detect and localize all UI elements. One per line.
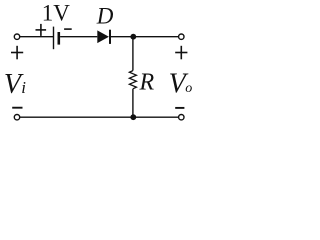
terminal: Vi- (open circle) (14, 115, 19, 120)
junction: bottom node (dot) (130, 114, 136, 120)
port Vo minus mark (175, 107, 184, 109)
port Vi minus mark (12, 107, 22, 109)
svg-text:R: R (139, 69, 155, 95)
wire: battery to diode anode (60, 36, 97, 38)
svg-text:1: 1 (42, 1, 54, 26)
port Vo plus mark (175, 46, 187, 60)
svg-text:i: i (21, 78, 26, 97)
diode D: cathode bar (109, 30, 111, 44)
battery 1 V (offset source) long positive plate (53, 27, 55, 50)
terminal: Vo- (open circle) (179, 115, 184, 120)
port Vi plus mark (11, 46, 23, 60)
wire: top node down to resistor (132, 37, 134, 71)
wire: bottom rail (Vi- terminal to Vo- terminal) (20, 116, 179, 118)
svg-text:V: V (53, 1, 70, 26)
junction: top node (dot) (130, 34, 136, 40)
wire: resistor to bottom node (132, 89, 134, 117)
terminal: Vo+ (open circle) (179, 34, 184, 39)
wire: diode cathode to top node (111, 36, 133, 38)
svg-text:o: o (185, 81, 192, 96)
wire: top node to Vo+ terminal (133, 36, 178, 38)
battery minus polarity mark (64, 28, 72, 30)
wire: top-left segment (Vi+ terminal to battery) (20, 36, 53, 38)
resistor R (zigzag) (129, 71, 136, 89)
diode D: anode triangle (97, 30, 109, 43)
battery plus polarity mark (36, 24, 47, 36)
battery 1 V short negative plate (57, 32, 60, 45)
terminal: Vi+ (open circle) (14, 34, 19, 39)
svg-text:D: D (96, 3, 114, 28)
